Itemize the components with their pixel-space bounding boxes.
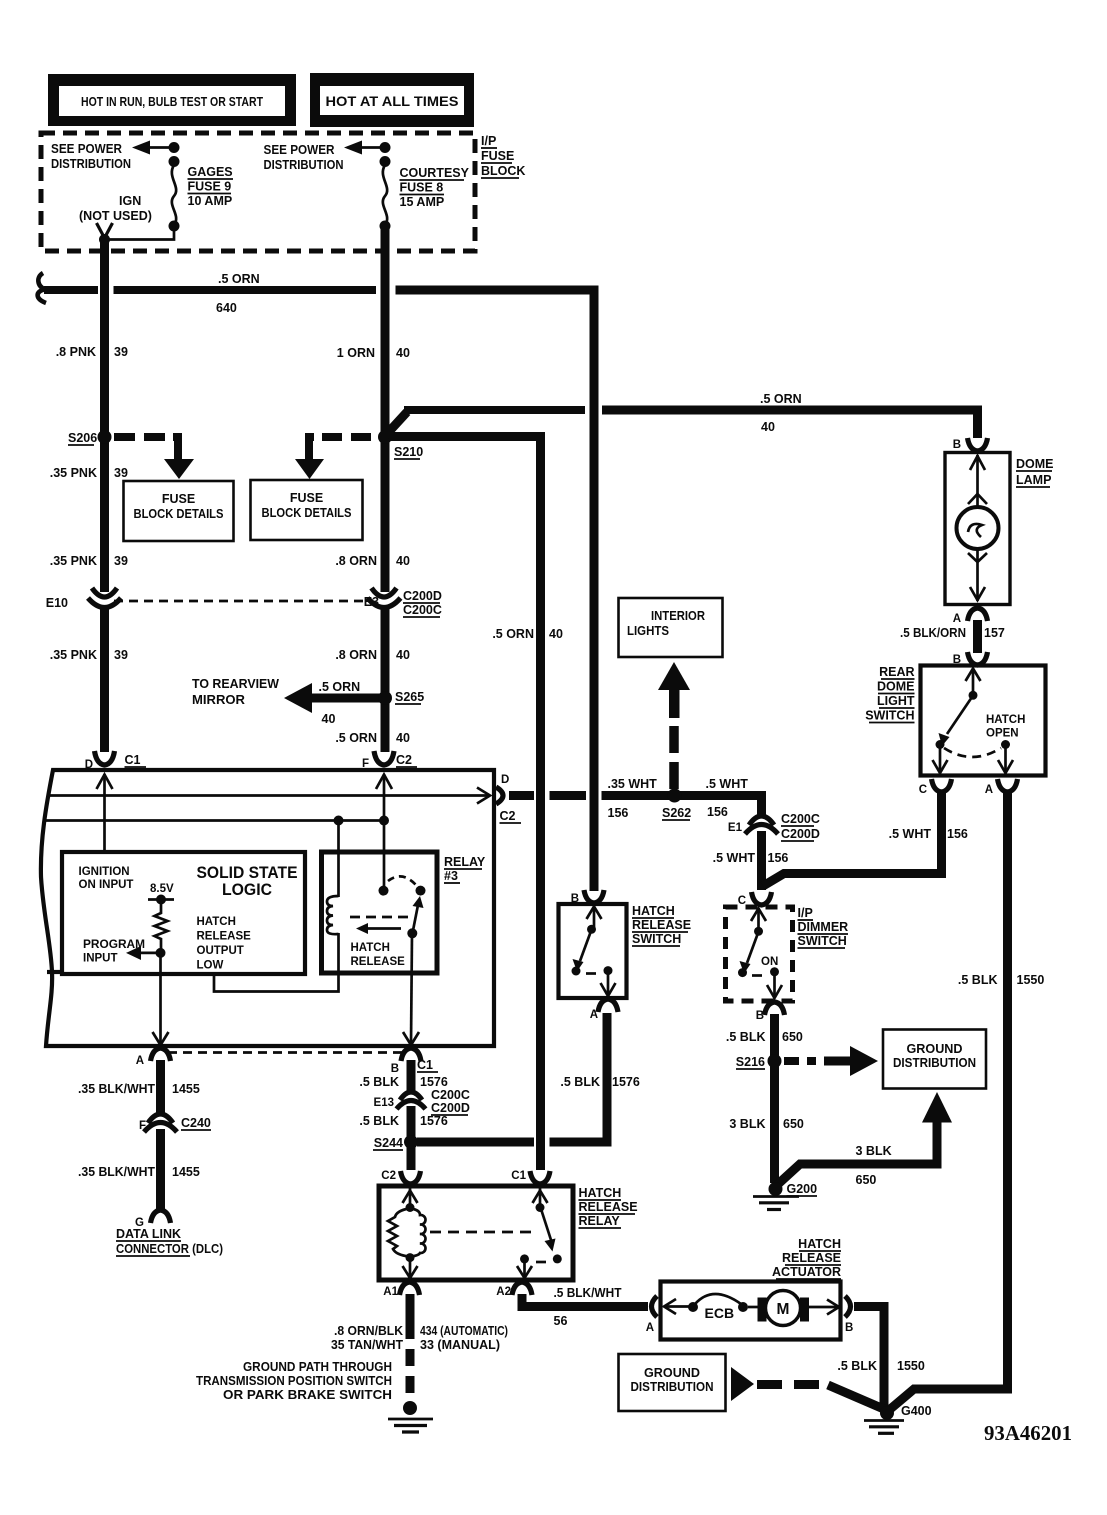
svg-text:3 BLK: 3 BLK	[856, 1144, 892, 1158]
relay switch lead in	[533, 1188, 548, 1212]
wire relay output down to C1	[411, 933, 412, 1044]
svg-text:HATCH: HATCH	[197, 916, 236, 928]
arrow hatch release action	[356, 923, 401, 934]
svg-text:640: 640	[216, 301, 237, 315]
svg-text:GROUND: GROUND	[907, 1042, 963, 1056]
svg-text:.5 WHT: .5 WHT	[706, 777, 749, 791]
label .35 WHT 156	[608, 777, 658, 820]
svg-text:B: B	[845, 1322, 853, 1334]
svg-text:C: C	[919, 784, 927, 796]
label I/P FUSE BLOCK	[481, 134, 525, 178]
svg-text:CONNECTOR (DLC): CONNECTOR (DLC)	[116, 1242, 223, 1256]
wire bus .5 ORN 640 hook	[38, 273, 46, 303]
svg-text:E13: E13	[374, 1097, 394, 1109]
label .5 ORN 40 relay C1 wire	[492, 627, 563, 641]
svg-text:.8 ORN: .8 ORN	[335, 648, 377, 662]
node relay output	[407, 928, 417, 938]
svg-text:A: A	[953, 613, 961, 625]
label HATCH RELEASE in relay	[351, 942, 406, 968]
svg-text:.8 PNK: .8 PNK	[56, 345, 96, 359]
hatch switch output contact	[601, 966, 616, 996]
svg-text:93A46201: 93A46201	[984, 1421, 1072, 1445]
svg-text:15 AMP: 15 AMP	[400, 195, 445, 209]
header box HOT AT ALL TIMES	[310, 73, 474, 127]
svg-text:156: 156	[707, 805, 728, 819]
connector E1 C200C C200D	[728, 812, 820, 841]
svg-text:.5 BLK/WHT: .5 BLK/WHT	[554, 1286, 622, 1300]
svg-text:OUTPUT: OUTPUT	[197, 945, 244, 957]
connector E10	[46, 588, 121, 610]
wire dashed interior lights feed	[669, 723, 679, 789]
I/P dimmer switch dashed box	[726, 907, 793, 1001]
wire F to relay switch	[383, 821, 386, 891]
svg-text:1455: 1455	[172, 1165, 200, 1179]
svg-text:REAR: REAR	[879, 665, 914, 679]
svg-text:GROUND: GROUND	[644, 1366, 700, 1380]
connector B C1 module	[391, 1048, 438, 1075]
wire .35 BLK WHT lower	[156, 1129, 165, 1210]
wire fuse9 to IGN	[99, 226, 174, 245]
svg-text:OPEN: OPEN	[986, 728, 1019, 740]
svg-text:DISTRIBUTION: DISTRIBUTION	[631, 1380, 714, 1394]
connector E3 C200D C200C	[364, 588, 442, 617]
label .5 ORN 40 below S265	[335, 731, 410, 745]
svg-text:.5 BLK: .5 BLK	[359, 1114, 399, 1128]
wire arrow to power distribution left	[132, 141, 174, 155]
svg-text:SEE POWER: SEE POWER	[264, 143, 335, 157]
wire .35 BLK WHT upper	[156, 1060, 165, 1114]
label PROGRAM INPUT	[83, 939, 145, 965]
connector B rear dome light switch	[953, 652, 988, 666]
svg-text:TRANSMISSION POSITION SWITCH: TRANSMISSION POSITION SWITCH	[196, 1374, 392, 1388]
label .35 PNK 39 row1	[50, 466, 128, 480]
wire G200 branch to ground distribution arrow	[777, 1092, 952, 1185]
wire hatch switch A down	[603, 1013, 612, 1142]
wire .8 ORN vertical lower	[381, 608, 390, 752]
label .5 BLK WHT 56	[554, 1286, 622, 1328]
svg-text:RELEASE: RELEASE	[632, 918, 691, 932]
box INTERIOR LIGHTS	[619, 598, 723, 657]
svg-text:A: A	[136, 1055, 144, 1067]
connector C2 hatch release relay	[381, 1170, 420, 1184]
label HATCH RELEASE ACTUATOR	[772, 1237, 841, 1279]
label IGNITION ON INPUT	[79, 866, 134, 891]
wire E1 down to dimmer C	[757, 831, 766, 890]
wire .5 BLK 650	[770, 1014, 779, 1062]
svg-text:.5 BLK: .5 BLK	[560, 1075, 600, 1089]
svg-text:.35 WHT: .35 WHT	[608, 777, 658, 791]
svg-text:1576: 1576	[420, 1114, 448, 1128]
svg-text:.5 ORN: .5 ORN	[319, 680, 361, 694]
svg-text:SEE POWER: SEE POWER	[51, 142, 122, 156]
connector B dimmer	[756, 1002, 785, 1022]
arrow interior lights	[658, 662, 690, 718]
connector G DLC	[135, 1210, 170, 1229]
label HATCH RELEASE OUTPUT LOW	[197, 916, 252, 972]
dome lamp internal top lead	[968, 455, 987, 508]
svg-text:157: 157	[984, 626, 1005, 640]
svg-text:HOT IN RUN, BULB TEST OR START: HOT IN RUN, BULB TEST OR START	[81, 95, 263, 109]
relay coil	[327, 896, 339, 934]
connector C rear dome switch	[919, 779, 952, 796]
dashed arc rear dome switch	[944, 748, 1001, 757]
svg-text:DISTRIBUTION: DISTRIBUTION	[264, 158, 344, 172]
svg-text:HATCH: HATCH	[351, 942, 390, 954]
label SEE POWER DISTRIBUTION left	[51, 142, 131, 171]
module box outline	[41, 770, 494, 1046]
svg-text:E10: E10	[46, 596, 68, 610]
svg-text:.35 PNK: .35 PNK	[50, 466, 97, 480]
label HATCH OPEN	[986, 714, 1025, 740]
wire .5 BLK 1576 middle	[407, 1106, 416, 1170]
svg-text:156: 156	[608, 806, 629, 820]
label DATA LINK CONNECTOR DLC	[116, 1227, 223, 1256]
svg-text:.5 BLK: .5 BLK	[359, 1075, 399, 1089]
wire A2 to actuator	[522, 1294, 648, 1307]
label TO REARVIEW MIRROR	[192, 677, 279, 707]
connector D C2 module output	[496, 774, 521, 823]
wire 3 BLK 650 down to G200	[770, 1061, 779, 1183]
wire F input	[376, 774, 392, 821]
wire dashed S216 to ground distribution	[784, 1057, 816, 1065]
label DOME LAMP	[1016, 457, 1054, 487]
splice S244	[373, 1135, 418, 1150]
svg-text:LOGIC: LOGIC	[222, 881, 272, 899]
wire S244 to hatch release switch A	[417, 1015, 607, 1142]
solid state logic box	[62, 852, 305, 974]
label 3 BLK 650 branch	[856, 1144, 892, 1187]
svg-text:RELEASE: RELEASE	[579, 1200, 638, 1214]
arrow into left fuse block details	[164, 459, 194, 479]
svg-text:LAMP: LAMP	[1016, 473, 1051, 487]
svg-text:E1: E1	[728, 822, 743, 834]
svg-text:RELEASE: RELEASE	[351, 956, 406, 968]
connector E13 C200C C200D	[374, 1088, 470, 1115]
svg-text:B: B	[756, 1010, 764, 1022]
wire .5 BLK 1550 tall	[888, 790, 1008, 1411]
label COURTESY FUSE 8 15 AMP	[400, 166, 470, 209]
svg-text:56: 56	[554, 1314, 568, 1328]
svg-text:C2: C2	[396, 753, 412, 767]
label .5 ORN 640	[216, 272, 260, 315]
svg-text:.35 PNK: .35 PNK	[50, 648, 97, 662]
svg-text:156: 156	[768, 851, 789, 865]
label .5 ORN 40 rearview	[319, 680, 361, 726]
svg-text:40: 40	[396, 648, 410, 662]
svg-text:LIGHT: LIGHT	[877, 694, 915, 708]
relay switch dashed arc	[388, 876, 416, 885]
svg-text:I/P: I/P	[481, 134, 496, 148]
svg-text:S206: S206	[68, 431, 97, 445]
svg-text:FUSE 8: FUSE 8	[400, 181, 444, 195]
box GROUND DISTRIBUTION lower	[619, 1354, 726, 1411]
header box HOT IN RUN	[48, 74, 296, 126]
label I/P DIMMER SWITCH	[798, 906, 849, 948]
svg-text:RELAY: RELAY	[579, 1214, 621, 1228]
relay coil lead out	[403, 1258, 418, 1278]
svg-text:156: 156	[947, 827, 968, 841]
wire internal bus to D C2 output	[50, 788, 490, 804]
wire ignition input D	[97, 774, 113, 852]
svg-text:40: 40	[549, 627, 563, 641]
dome lamp box	[945, 453, 1010, 605]
label GAGES FUSE 9 10 AMP	[188, 165, 234, 208]
svg-text:8.5V: 8.5V	[150, 883, 174, 895]
connector A2 relay	[496, 1282, 532, 1298]
svg-text:FUSE: FUSE	[162, 492, 195, 506]
svg-text:HATCH: HATCH	[986, 714, 1025, 726]
svg-text:SOLID STATE: SOLID STATE	[197, 864, 298, 882]
svg-text:DISTRIBUTION: DISTRIBUTION	[893, 1056, 976, 1070]
svg-text:.5 BLK/ORN: .5 BLK/ORN	[900, 626, 966, 640]
svg-text:#3: #3	[444, 869, 458, 883]
wire diagonal to G400	[828, 1385, 886, 1410]
svg-text:HATCH: HATCH	[579, 1186, 622, 1200]
svg-text:(NOT USED): (NOT USED)	[79, 209, 152, 223]
svg-text:IGNITION: IGNITION	[79, 866, 130, 878]
svg-text:650: 650	[856, 1173, 877, 1187]
dimmer switch pole	[751, 908, 766, 936]
svg-text:S216: S216	[736, 1055, 765, 1069]
svg-text:A1: A1	[383, 1286, 398, 1298]
splice S216	[736, 1054, 782, 1069]
svg-text:S265: S265	[395, 690, 424, 704]
label .35 BLK WHT 1455	[78, 1082, 200, 1096]
label .5 BLK ORN 157	[900, 626, 1005, 640]
svg-text:B: B	[391, 1063, 399, 1075]
wire .5 BLK 1576 upper	[407, 1060, 416, 1092]
label .5 ORN 40 dome feed	[760, 392, 802, 434]
relay switch contact	[416, 886, 426, 896]
svg-text:1455: 1455	[172, 1082, 200, 1096]
svg-text:C200C: C200C	[781, 812, 820, 826]
svg-text:40: 40	[396, 554, 410, 568]
svg-text:434 (AUTOMATIC): 434 (AUTOMATIC)	[420, 1324, 508, 1338]
svg-text:C1: C1	[125, 753, 141, 767]
wire .35 PNK vertical lower	[100, 608, 109, 752]
ground G400	[864, 1404, 932, 1433]
svg-text:.5 WHT: .5 WHT	[713, 851, 756, 865]
label .8 ORN 40 row1	[335, 554, 410, 568]
svg-text:C200D: C200D	[781, 827, 820, 841]
wire 1 ORN vertical upper	[381, 226, 390, 592]
wire bus .5 ORN 640	[44, 290, 594, 891]
connector F C2	[362, 751, 417, 770]
svg-text:B: B	[953, 439, 961, 451]
svg-text:S262: S262	[662, 806, 691, 820]
svg-text:DOME: DOME	[1016, 457, 1054, 471]
svg-text:3 BLK: 3 BLK	[729, 1117, 765, 1131]
svg-text:.5 WHT: .5 WHT	[889, 827, 932, 841]
label .8 PNK 39	[56, 345, 128, 359]
svg-text:BLOCK DETAILS: BLOCK DETAILS	[134, 507, 224, 521]
label .35 PNK 39 row3	[50, 648, 128, 662]
connector A module	[136, 1048, 171, 1067]
connector A rear dome switch	[985, 779, 1018, 796]
svg-text:.5 ORN: .5 ORN	[335, 731, 377, 745]
label 1 ORN 40	[337, 346, 410, 360]
connector B hatch release switch	[571, 890, 604, 905]
label .35 PNK 39 row2	[50, 554, 128, 568]
wire S210 diagonal to dome lamp feed	[385, 412, 407, 436]
label .5 BLK 1550 actuator	[837, 1359, 924, 1373]
arrow exit A	[153, 1032, 169, 1045]
connector C dimmer	[738, 892, 772, 907]
svg-text:INTERIOR: INTERIOR	[651, 609, 705, 623]
hatch release actuator box	[661, 1282, 841, 1340]
label .5 BLK 1576 middle	[359, 1114, 447, 1128]
svg-text:COURTESY: COURTESY	[400, 166, 470, 180]
label .8 ORN 40 row2	[335, 648, 410, 662]
svg-text:650: 650	[783, 1117, 804, 1131]
svg-text:HATCH: HATCH	[798, 1237, 841, 1251]
svg-text:35 TAN/WHT: 35 TAN/WHT	[331, 1338, 403, 1352]
wire .35 WHT 156 horizontal	[509, 796, 762, 819]
wire arrow to rearview mirror	[284, 683, 384, 713]
I/P fuse block dashed box	[41, 133, 475, 251]
fuse F9 GAGES	[169, 142, 180, 232]
svg-text:.8 ORN/BLK: .8 ORN/BLK	[334, 1324, 403, 1338]
svg-text:HATCH: HATCH	[632, 904, 675, 918]
svg-text:ACTUATOR: ACTUATOR	[772, 1265, 841, 1279]
connector B dome lamp	[953, 438, 988, 451]
node program input	[156, 948, 166, 958]
wire dashed S210 to fuse details	[309, 437, 314, 459]
box GROUND DISTRIBUTION upper	[883, 1030, 986, 1089]
svg-text:TO REARVIEW: TO REARVIEW	[192, 677, 279, 691]
connector B actuator	[845, 1296, 853, 1334]
wire actuator B to G400	[854, 1307, 884, 1407]
svg-text:S244: S244	[374, 1136, 403, 1150]
svg-text:.5 ORN: .5 ORN	[492, 627, 534, 641]
resistor program input	[155, 904, 168, 952]
actuator input arrow	[664, 1299, 689, 1314]
svg-text:ON: ON	[761, 956, 778, 968]
IGN terminal	[97, 223, 113, 238]
label SEE POWER DISTRIBUTION right	[264, 143, 344, 172]
relay switch common	[379, 886, 389, 896]
svg-text:.35 BLK/WHT: .35 BLK/WHT	[78, 1165, 155, 1179]
svg-text:INPUT: INPUT	[83, 953, 118, 965]
dimmer ON contact	[761, 956, 782, 998]
hatch release relay box	[379, 1186, 573, 1280]
wire program output down to A	[159, 953, 162, 1044]
ECB element	[688, 1294, 748, 1321]
wire branch to rear dome light switch C	[763, 790, 942, 886]
svg-text:1576: 1576	[612, 1075, 640, 1089]
svg-text:RELEASE: RELEASE	[197, 931, 252, 943]
svg-text:1550: 1550	[1017, 973, 1045, 987]
motor M	[748, 1291, 839, 1326]
ground transmission switch	[388, 1401, 433, 1432]
svg-text:C240: C240	[181, 1116, 211, 1130]
svg-text:BLOCK: BLOCK	[481, 164, 525, 178]
wire dashed E10 to E3	[114, 600, 367, 603]
label IGN NOT USED	[79, 194, 152, 223]
connector C1 hatch release relay	[511, 1170, 550, 1184]
wire dashed to G400	[757, 1380, 830, 1389]
svg-text:.5 BLK: .5 BLK	[837, 1359, 877, 1373]
label .8 ORN BLK 434 AUTOMATIC	[334, 1324, 508, 1338]
svg-text:FUSE: FUSE	[290, 491, 323, 505]
svg-text:A: A	[646, 1322, 654, 1334]
connector F C240	[139, 1114, 211, 1132]
svg-text:40: 40	[761, 420, 775, 434]
wire .8 PNK vertical upper	[100, 240, 109, 593]
label .35 BLK WHT 1455 lower	[78, 1165, 200, 1179]
connector A1 relay	[383, 1282, 419, 1298]
hatch switch blade	[572, 931, 597, 976]
label .5 BLK 650	[726, 1030, 803, 1044]
svg-text:IGN: IGN	[119, 194, 141, 208]
label REAR DOME LIGHT SWITCH	[865, 665, 915, 723]
wire to relay coil	[337, 821, 340, 898]
svg-text:.5 ORN: .5 ORN	[218, 272, 260, 286]
hatch switch pole	[587, 906, 602, 934]
wire .5 BLK ORN 157	[973, 620, 982, 653]
svg-text:MIRROR: MIRROR	[192, 693, 245, 707]
svg-text:39: 39	[114, 466, 128, 480]
rear dome light switch box	[921, 666, 1046, 776]
svg-text:SWITCH: SWITCH	[632, 932, 681, 946]
svg-text:SWITCH: SWITCH	[798, 934, 847, 948]
wire dashed S206 to fuse details	[114, 433, 165, 441]
svg-text:C200C: C200C	[403, 603, 442, 617]
svg-text:33 (MANUAL): 33 (MANUAL)	[420, 1338, 500, 1352]
svg-text:10 AMP: 10 AMP	[188, 194, 233, 208]
svg-text:FUSE 9: FUSE 9	[188, 180, 232, 194]
relay switch blade	[413, 896, 424, 933]
relay coil	[388, 1209, 425, 1263]
relay coil lead in	[403, 1188, 418, 1212]
node 8.5V	[148, 895, 174, 905]
svg-text:FUSE: FUSE	[481, 149, 514, 163]
svg-text:RELAY: RELAY	[444, 855, 486, 869]
label .5 BLK 1576 hatch switch	[560, 1075, 639, 1089]
svg-text:ON INPUT: ON INPUT	[79, 879, 134, 891]
svg-text:F: F	[139, 1120, 146, 1132]
svg-text:39: 39	[114, 648, 128, 662]
box FUSE BLOCK DETAILS left	[124, 481, 234, 541]
splice S206	[68, 430, 112, 445]
label HATCH RELEASE SWITCH	[632, 904, 691, 946]
svg-text:A2: A2	[496, 1286, 511, 1298]
svg-text:650: 650	[782, 1030, 803, 1044]
ground G200	[753, 1182, 817, 1210]
svg-text:39: 39	[114, 554, 128, 568]
svg-text:DISTRIBUTION: DISTRIBUTION	[51, 157, 131, 171]
label .5 WHT 156 branch	[889, 827, 968, 841]
svg-text:.35 PNK: .35 PNK	[50, 554, 97, 568]
svg-text:1 ORN: 1 ORN	[337, 346, 375, 360]
label RELAY #3	[444, 855, 486, 883]
label 3 BLK 650	[729, 1117, 804, 1131]
svg-text:RELEASE: RELEASE	[782, 1251, 841, 1265]
svg-text:C2: C2	[381, 1170, 396, 1182]
box FUSE BLOCK DETAILS right	[251, 480, 363, 540]
connector row dashed C1 module	[168, 1051, 404, 1054]
label SOLID STATE LOGIC	[197, 864, 298, 899]
svg-text:DIMMER: DIMMER	[798, 920, 849, 934]
dimmer switch blade	[738, 933, 762, 977]
rear dome switch hatch contact	[998, 740, 1013, 773]
label 35 TAN WHT 33 MANUAL	[331, 1338, 500, 1352]
svg-text:ECB: ECB	[705, 1305, 735, 1321]
svg-text:.35 BLK/WHT: .35 BLK/WHT	[78, 1082, 155, 1096]
wire A1 down	[406, 1294, 415, 1322]
svg-text:LIGHTS: LIGHTS	[627, 624, 669, 638]
svg-text:40: 40	[396, 346, 410, 360]
